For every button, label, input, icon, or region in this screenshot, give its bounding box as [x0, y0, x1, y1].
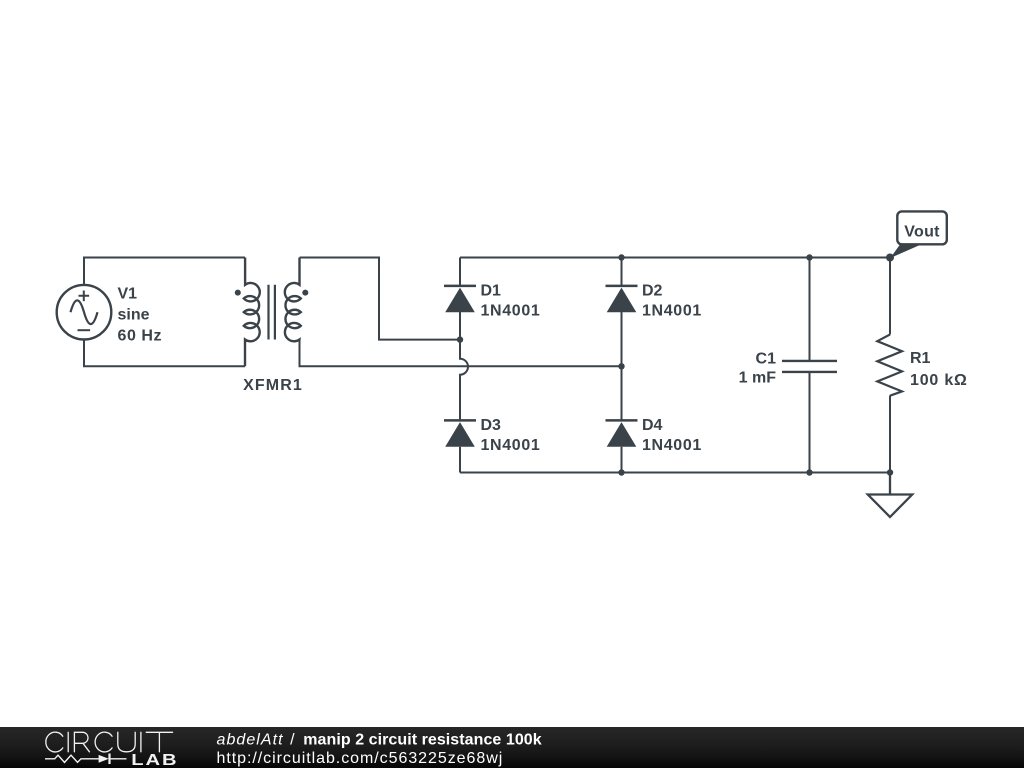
- svg-text:C1: C1: [756, 351, 777, 368]
- wire primary top (V1 to XFMR1): [84, 258, 245, 285]
- wire primary bottom (V1 to XFMR1): [84, 340, 245, 367]
- svg-text:Vout: Vout: [904, 224, 940, 241]
- label D2: [642, 283, 702, 320]
- logo resistor-diode glyph: [45, 754, 127, 765]
- svg-text:D4: D4: [642, 417, 663, 434]
- label R1 values: [910, 350, 968, 389]
- wire D1 branch with hop over crossing: [460, 258, 468, 473]
- wire C1 branch: [809, 258, 811, 473]
- junction dot top rail D2: [618, 254, 624, 260]
- svg-text:LAB: LAB: [131, 751, 178, 768]
- label C1 values: [739, 351, 777, 387]
- label D4: [642, 417, 702, 454]
- diode D1: [444, 286, 476, 312]
- wire secondary bottom (XFMR1 to D2 branch): [300, 340, 622, 367]
- svg-text:XFMR1: XFMR1: [243, 377, 303, 394]
- junction dot secondary bottom to D2 branch: [618, 363, 624, 369]
- diode D3: [444, 420, 476, 446]
- svg-text:1N4001: 1N4001: [642, 437, 702, 454]
- junction dot bottom rail R1/ground: [887, 469, 893, 475]
- svg-text:D3: D3: [481, 417, 502, 434]
- svg-text:1N4001: 1N4001: [481, 437, 541, 454]
- diode D2: [606, 286, 638, 312]
- diode D4: [606, 420, 638, 446]
- resistor R1 zigzag: [877, 335, 902, 396]
- svg-text:100 kΩ: 100 kΩ: [910, 372, 968, 389]
- wire D2 branch: [621, 258, 623, 473]
- svg-text:R1: R1: [910, 350, 931, 367]
- footer bar: [0, 727, 1024, 768]
- svg-text:1 mF: 1 mF: [739, 370, 777, 387]
- label V1 values: [118, 286, 163, 345]
- svg-text:D2: D2: [642, 283, 663, 300]
- junction dot Vout node: [886, 254, 894, 262]
- svg-text:http://circuitlab.com/c563225z: http://circuitlab.com/c563225ze68wj: [217, 750, 504, 767]
- svg-text:V1: V1: [118, 286, 138, 303]
- svg-text:60 Hz: 60 Hz: [118, 328, 163, 345]
- junction dot bottom rail D4: [618, 469, 624, 475]
- wire secondary top (XFMR1 to node A): [300, 258, 461, 340]
- junction dot bottom rail C1: [806, 469, 812, 475]
- transformer XFMR1: [235, 258, 308, 367]
- label D1: [481, 283, 541, 320]
- svg-text:1N4001: 1N4001: [642, 303, 702, 320]
- bottom rail wire: [460, 472, 890, 474]
- node A junction dot (secondary top to D1 branch): [457, 336, 463, 342]
- junction dot top rail C1: [806, 254, 812, 260]
- voltage source V1: [57, 285, 112, 340]
- svg-text:1N4001: 1N4001: [481, 303, 541, 320]
- ground symbol: [868, 473, 912, 518]
- flag Vout: [890, 211, 947, 258]
- wire R1 branch: [889, 258, 891, 473]
- label D3: [481, 417, 541, 454]
- svg-text:abdelAtt / manip 2 circuit res: abdelAtt / manip 2 circuit resistance 10…: [217, 732, 542, 749]
- svg-text:D1: D1: [481, 283, 502, 300]
- logo CIRCUIT wordmark: [46, 732, 173, 752]
- top rail wire: [460, 257, 890, 259]
- svg-text:sine: sine: [118, 307, 150, 324]
- capacitor C1 plates: [782, 361, 837, 372]
